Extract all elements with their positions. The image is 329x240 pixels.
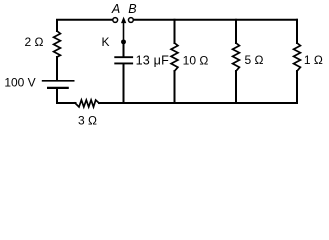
svg-text:10 Ω: 10 Ω xyxy=(183,54,209,68)
svg-text:13 μF: 13 μF xyxy=(136,53,170,67)
svg-text:K: K xyxy=(101,35,109,49)
svg-text:1 Ω: 1 Ω xyxy=(304,53,323,67)
svg-text:B: B xyxy=(128,2,136,16)
svg-text:3 Ω: 3 Ω xyxy=(78,113,97,127)
svg-text:2 Ω: 2 Ω xyxy=(25,35,44,49)
svg-text:A: A xyxy=(111,2,120,16)
svg-text:100 V: 100 V xyxy=(4,76,35,90)
svg-text:5 Ω: 5 Ω xyxy=(245,53,264,67)
